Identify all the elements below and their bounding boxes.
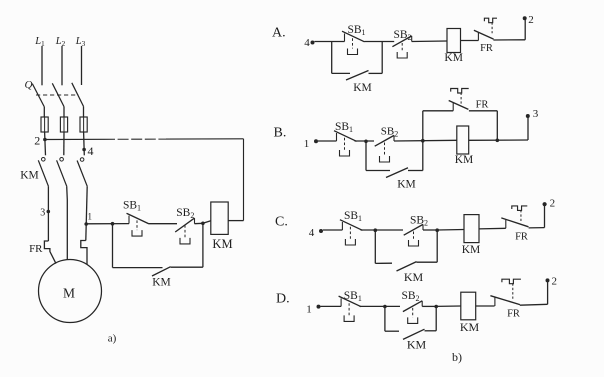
- wire self-lock branch left (A): [331, 42, 333, 74]
- pushbutton SB1 (a): [128, 216, 130, 224]
- wire L3 lead: [81, 46, 83, 85]
- svg-text:A.: A.: [272, 26, 286, 41]
- wire FR to terminal 2 (A): [493, 39, 525, 41]
- svg-text:KM: KM: [152, 277, 171, 289]
- svg-text:4: 4: [88, 144, 94, 158]
- svg-text:b): b): [452, 350, 462, 364]
- terminal 2 (A): [523, 16, 527, 20]
- wire coil node to rise (B): [469, 139, 528, 141]
- junction node FR branch right (B): [496, 139, 500, 143]
- pushbutton SB1 (B): [336, 133, 338, 141]
- contactor KM main contact 1: [42, 158, 46, 162]
- wire coil to FR (D): [476, 305, 495, 307]
- svg-text:L1: L1: [34, 36, 45, 48]
- svg-text:3: 3: [533, 108, 539, 120]
- terminal 3 (B): [526, 114, 530, 118]
- svg-text:4: 4: [304, 37, 310, 49]
- pushbutton SB2 (B): [393, 135, 395, 141]
- svg-text:FR: FR: [480, 43, 493, 54]
- wire pole3 to fuse FU3: [83, 106, 85, 117]
- wire SB2 to coil node (a): [195, 222, 203, 224]
- svg-text:1: 1: [304, 138, 310, 150]
- wire self-lock branch left (D): [384, 307, 386, 332]
- svg-text:SB1: SB1: [344, 210, 362, 223]
- switch Q pole 1 blade: [32, 84, 44, 107]
- svg-text:B.: B.: [274, 126, 287, 141]
- motor M: [39, 260, 102, 323]
- pushbutton SB1 (A): [344, 34, 346, 42]
- svg-text:2: 2: [34, 133, 40, 147]
- wire self-lock branch left (C): [374, 230, 376, 263]
- svg-text:KM: KM: [462, 244, 481, 256]
- junction node FR branch left (B): [421, 139, 425, 143]
- wire phase3 KM down: [86, 186, 87, 240]
- node 4: [82, 148, 86, 152]
- junction node before coil (a): [201, 222, 205, 226]
- wire self-lock branch right (A): [381, 42, 383, 74]
- contactor KM auxiliary contact (C): [397, 262, 417, 271]
- contactor KM auxiliary contact (a): [152, 267, 171, 276]
- contactor KM auxiliary contact (A): [346, 71, 369, 81]
- wire fuse FU1 to node 2: [44, 132, 46, 140]
- svg-text:KM: KM: [407, 338, 427, 352]
- wire self-lock branch left (B): [365, 141, 367, 170]
- svg-text:2: 2: [550, 198, 556, 210]
- svg-text:SB1: SB1: [344, 290, 362, 303]
- wire SB1 to node (C): [361, 229, 404, 231]
- pushbutton SB1 (C): [341, 222, 343, 230]
- svg-text:SB1: SB1: [347, 24, 365, 37]
- wire self-lock bottom right (C): [417, 261, 438, 263]
- wire coil to FR (A): [461, 40, 479, 42]
- wire node 2 to KM contact 1: [44, 140, 47, 156]
- svg-text:2: 2: [552, 276, 558, 288]
- wire pole1 to fuse FU1: [43, 107, 45, 117]
- svg-text:KM: KM: [455, 154, 474, 166]
- wire coil to FR (C): [479, 227, 506, 230]
- wire self-lock branch right (D): [435, 307, 437, 331]
- wire self-lock bottom right (B): [408, 170, 423, 172]
- switch Q linkage (dashed): [36, 94, 79, 96]
- svg-text:3: 3: [40, 208, 45, 219]
- thermal contact FR (B): [452, 102, 454, 111]
- wire SB1 to SB2 (a): [149, 223, 177, 225]
- svg-text:SB2: SB2: [410, 215, 428, 228]
- wire fuse FU3 down: [83, 132, 86, 155]
- svg-text:KM: KM: [20, 170, 39, 182]
- svg-text:Q: Q: [25, 79, 33, 91]
- wire self-lock branch bottom (B): [366, 170, 390, 172]
- svg-text:1: 1: [88, 211, 93, 221]
- fuse FU3: [80, 117, 87, 132]
- wire self-lock bottom right (A): [369, 72, 383, 74]
- svg-text:SB1: SB1: [335, 121, 353, 134]
- wire self-lock branch right (a): [171, 266, 203, 268]
- wire fuse FU2 down: [63, 132, 65, 155]
- wire SB1 to SB2 (A): [365, 41, 395, 43]
- junction node after SB2 (C): [435, 228, 439, 232]
- terminal 2 (C): [543, 202, 547, 206]
- svg-text:KM: KM: [460, 320, 480, 334]
- svg-text:1: 1: [306, 304, 312, 316]
- wire L2 lead: [61, 46, 63, 85]
- contactor KM main contact 3: [80, 158, 84, 162]
- wire phase2 KM to motor: [66, 186, 69, 260]
- wire self-lock bottom right (D): [425, 330, 437, 332]
- terminal 2 (D): [546, 278, 550, 282]
- wire FR to rise (C): [529, 227, 545, 229]
- svg-text:a): a): [108, 333, 117, 345]
- node 2: [43, 138, 47, 142]
- wire node to coil KM (C): [437, 229, 464, 232]
- wire self-lock branch left (a): [112, 224, 114, 268]
- wire FR branch rise left (B): [422, 111, 424, 141]
- wire SB2 to coil KM (A): [412, 40, 447, 43]
- svg-text:KM: KM: [397, 179, 416, 191]
- svg-text:FR: FR: [507, 309, 520, 320]
- wire SB2 to coil KM (B): [394, 139, 457, 142]
- wire rise to terminal 2 (C): [544, 204, 546, 227]
- svg-text:M: M: [63, 286, 75, 301]
- wire rise to terminal 2 (A): [524, 18, 526, 40]
- wire terminal 4 to SB1 (C): [323, 229, 342, 231]
- contactor KM auxiliary contact (D): [403, 329, 425, 339]
- thermal contact FR (A): [477, 32, 479, 41]
- svg-text:SB2: SB2: [401, 290, 419, 303]
- pushbutton SB2 (A): [411, 36, 413, 42]
- pushbutton SB2 (D): [421, 301, 423, 307]
- wire SB2 to node (C): [423, 229, 437, 231]
- wire terminal 1 to SB1 (B): [318, 140, 337, 142]
- svg-text:FR: FR: [29, 243, 43, 255]
- wire self-lock branch bottom (C): [375, 262, 392, 264]
- wire terminal 4 to SB1 (A): [315, 41, 345, 43]
- wire rise to terminal 2 (D): [547, 280, 549, 304]
- svg-text:D.: D.: [276, 292, 290, 307]
- wire node to coil KM (a): [203, 221, 211, 224]
- contactor KM auxiliary contact (B): [386, 168, 408, 178]
- svg-text:SB2: SB2: [381, 126, 398, 139]
- wire node 1 to SB1 (a): [86, 223, 129, 225]
- wire FR to rise (D): [520, 303, 548, 306]
- contactor KM main contact 2: [60, 158, 64, 162]
- svg-text:KM: KM: [444, 52, 463, 64]
- svg-text:SB1: SB1: [123, 200, 141, 213]
- contactor coil KM (B): [457, 126, 469, 154]
- svg-text:KM: KM: [212, 237, 232, 251]
- wire SB1 to node (D): [360, 305, 401, 307]
- node 1: [84, 222, 88, 226]
- wire self-lock branch bottom (A): [332, 72, 350, 74]
- junction node after SB2 (D): [434, 305, 438, 309]
- pushbutton SB2 (C): [422, 224, 424, 230]
- thermal contact FR (D): [494, 298, 496, 307]
- wire node to coil KM (D): [436, 305, 461, 307]
- svg-text:SB2: SB2: [176, 207, 194, 220]
- wire L1 lead: [41, 46, 43, 85]
- wire FR branch top left (B): [423, 110, 453, 112]
- wire FR branch drop right (B): [496, 111, 498, 141]
- switch Q pole 2 blade: [52, 83, 64, 106]
- wire SB2 to node (D): [422, 305, 436, 307]
- wire rise to terminal 3 (B): [527, 116, 529, 140]
- svg-text:L3: L3: [75, 36, 86, 48]
- contactor coil KM (A): [447, 29, 461, 53]
- wire control rail from node 2: [45, 138, 104, 140]
- junction node (a) self-lock tap: [111, 222, 115, 226]
- svg-text:C.: C.: [275, 215, 288, 230]
- thermal relay FR heater 3: [81, 241, 87, 265]
- wire terminal 1 to SB1 (D): [321, 305, 342, 307]
- contactor coil KM (C): [464, 215, 479, 243]
- fuse FU2: [60, 117, 67, 132]
- wire self-lock branch right (B): [422, 141, 424, 171]
- pushbutton SB1 (D): [340, 298, 342, 306]
- thermal relay FR heater 1: [44, 241, 56, 264]
- pushbutton SB2 (a): [194, 218, 196, 224]
- thermal contact FR (C): [505, 220, 507, 229]
- wire pole2 to fuse FU2: [63, 107, 65, 117]
- svg-text:4: 4: [309, 227, 315, 239]
- svg-text:SB2: SB2: [393, 29, 411, 42]
- wire self-lock branch right (C): [436, 230, 438, 262]
- junction node after SB1 (D): [383, 305, 387, 309]
- junction node after SB1 (B): [364, 140, 368, 144]
- wire right-side drop: [243, 139, 245, 221]
- wire SB1 to node (B): [355, 140, 375, 142]
- junction node after SB1 (C): [374, 228, 378, 232]
- svg-text:KM: KM: [404, 270, 424, 284]
- switch Q pole 3 blade: [72, 83, 84, 107]
- fuse FU1: [41, 117, 48, 132]
- contactor coil KM (a): [211, 202, 228, 234]
- wire FR branch top right (B): [469, 110, 497, 112]
- wire self-lock branch bottom (D): [385, 330, 399, 332]
- svg-text:KM: KM: [353, 82, 372, 94]
- wire coil KM to right drop (a): [228, 220, 243, 222]
- wire self-lock branch rise (a): [202, 223, 204, 267]
- svg-text:2: 2: [528, 14, 534, 26]
- contactor coil KM (D): [461, 292, 476, 320]
- svg-text:FR: FR: [476, 100, 489, 111]
- wire self-lock branch bottom (a): [113, 267, 163, 269]
- svg-text:L2: L2: [55, 36, 66, 48]
- node 3: [47, 210, 51, 214]
- wire phase1 KM to FR: [47, 186, 49, 241]
- svg-text:FR: FR: [515, 232, 528, 243]
